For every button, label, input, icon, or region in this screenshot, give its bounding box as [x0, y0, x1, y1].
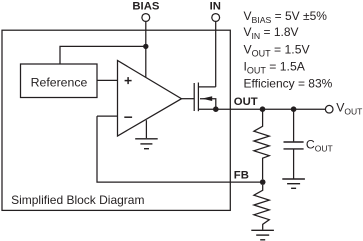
- svg-text:BIAS: BIAS: [132, 1, 159, 13]
- wire OUT rail: [216, 108, 325, 110]
- svg-text:Simplified Block Diagram: Simplified Block Diagram: [11, 193, 144, 207]
- junction node R1 tap: [260, 106, 266, 112]
- transistor Q1 body lead: [200, 99, 216, 110]
- wire feedback loop: [97, 116, 263, 182]
- ground R2: [251, 230, 274, 240]
- transistor Q1 channel bar: [197, 83, 199, 112]
- op-amp U1: [118, 61, 182, 137]
- terminal VOUT circle: [325, 105, 333, 113]
- junction node FB: [260, 179, 266, 185]
- resistor R1 upper feedback: [254, 109, 269, 179]
- transistor Q1 drain stub: [198, 86, 215, 88]
- wire op-amp output to gate: [182, 98, 195, 100]
- ground COUT: [282, 179, 305, 188]
- op-amp + input label: [125, 77, 132, 84]
- wire BIAS stem: [145, 21, 147, 77]
- capacitor COUT leads: [293, 109, 295, 141]
- wire IN stem: [215, 21, 217, 87]
- resistor R2 lower feedback: [254, 185, 269, 230]
- transistor Q1 gate bar: [193, 83, 195, 111]
- capacitor COUT plates: [284, 142, 304, 149]
- svg-text:FB: FB: [234, 169, 249, 181]
- op-amp - input label: [124, 116, 132, 118]
- junction node COUT tap: [291, 106, 297, 112]
- pin IN terminal circle: [212, 14, 220, 22]
- svg-text:IN: IN: [210, 1, 221, 13]
- pin BIAS terminal circle: [142, 14, 150, 22]
- svg-text:Reference: Reference: [31, 75, 88, 89]
- junction node source/OUT: [213, 106, 219, 112]
- transistor Q1 source stub: [198, 108, 215, 110]
- junction node BIAS rail: [143, 44, 148, 49]
- reference block: [21, 64, 98, 98]
- wire inverting input: [97, 115, 118, 117]
- ground op-amp: [135, 120, 158, 149]
- svg-text:Efficiency = 83%: Efficiency = 83%: [244, 77, 333, 91]
- svg-text:OUT: OUT: [234, 96, 258, 108]
- transistor Q1 body arrow head: [202, 96, 212, 101]
- wire BIAS rail to reference: [60, 46, 146, 64]
- wire reference output to + input: [97, 79, 118, 81]
- outer box (Simplified Block Diagram boundary): [2, 30, 230, 210]
